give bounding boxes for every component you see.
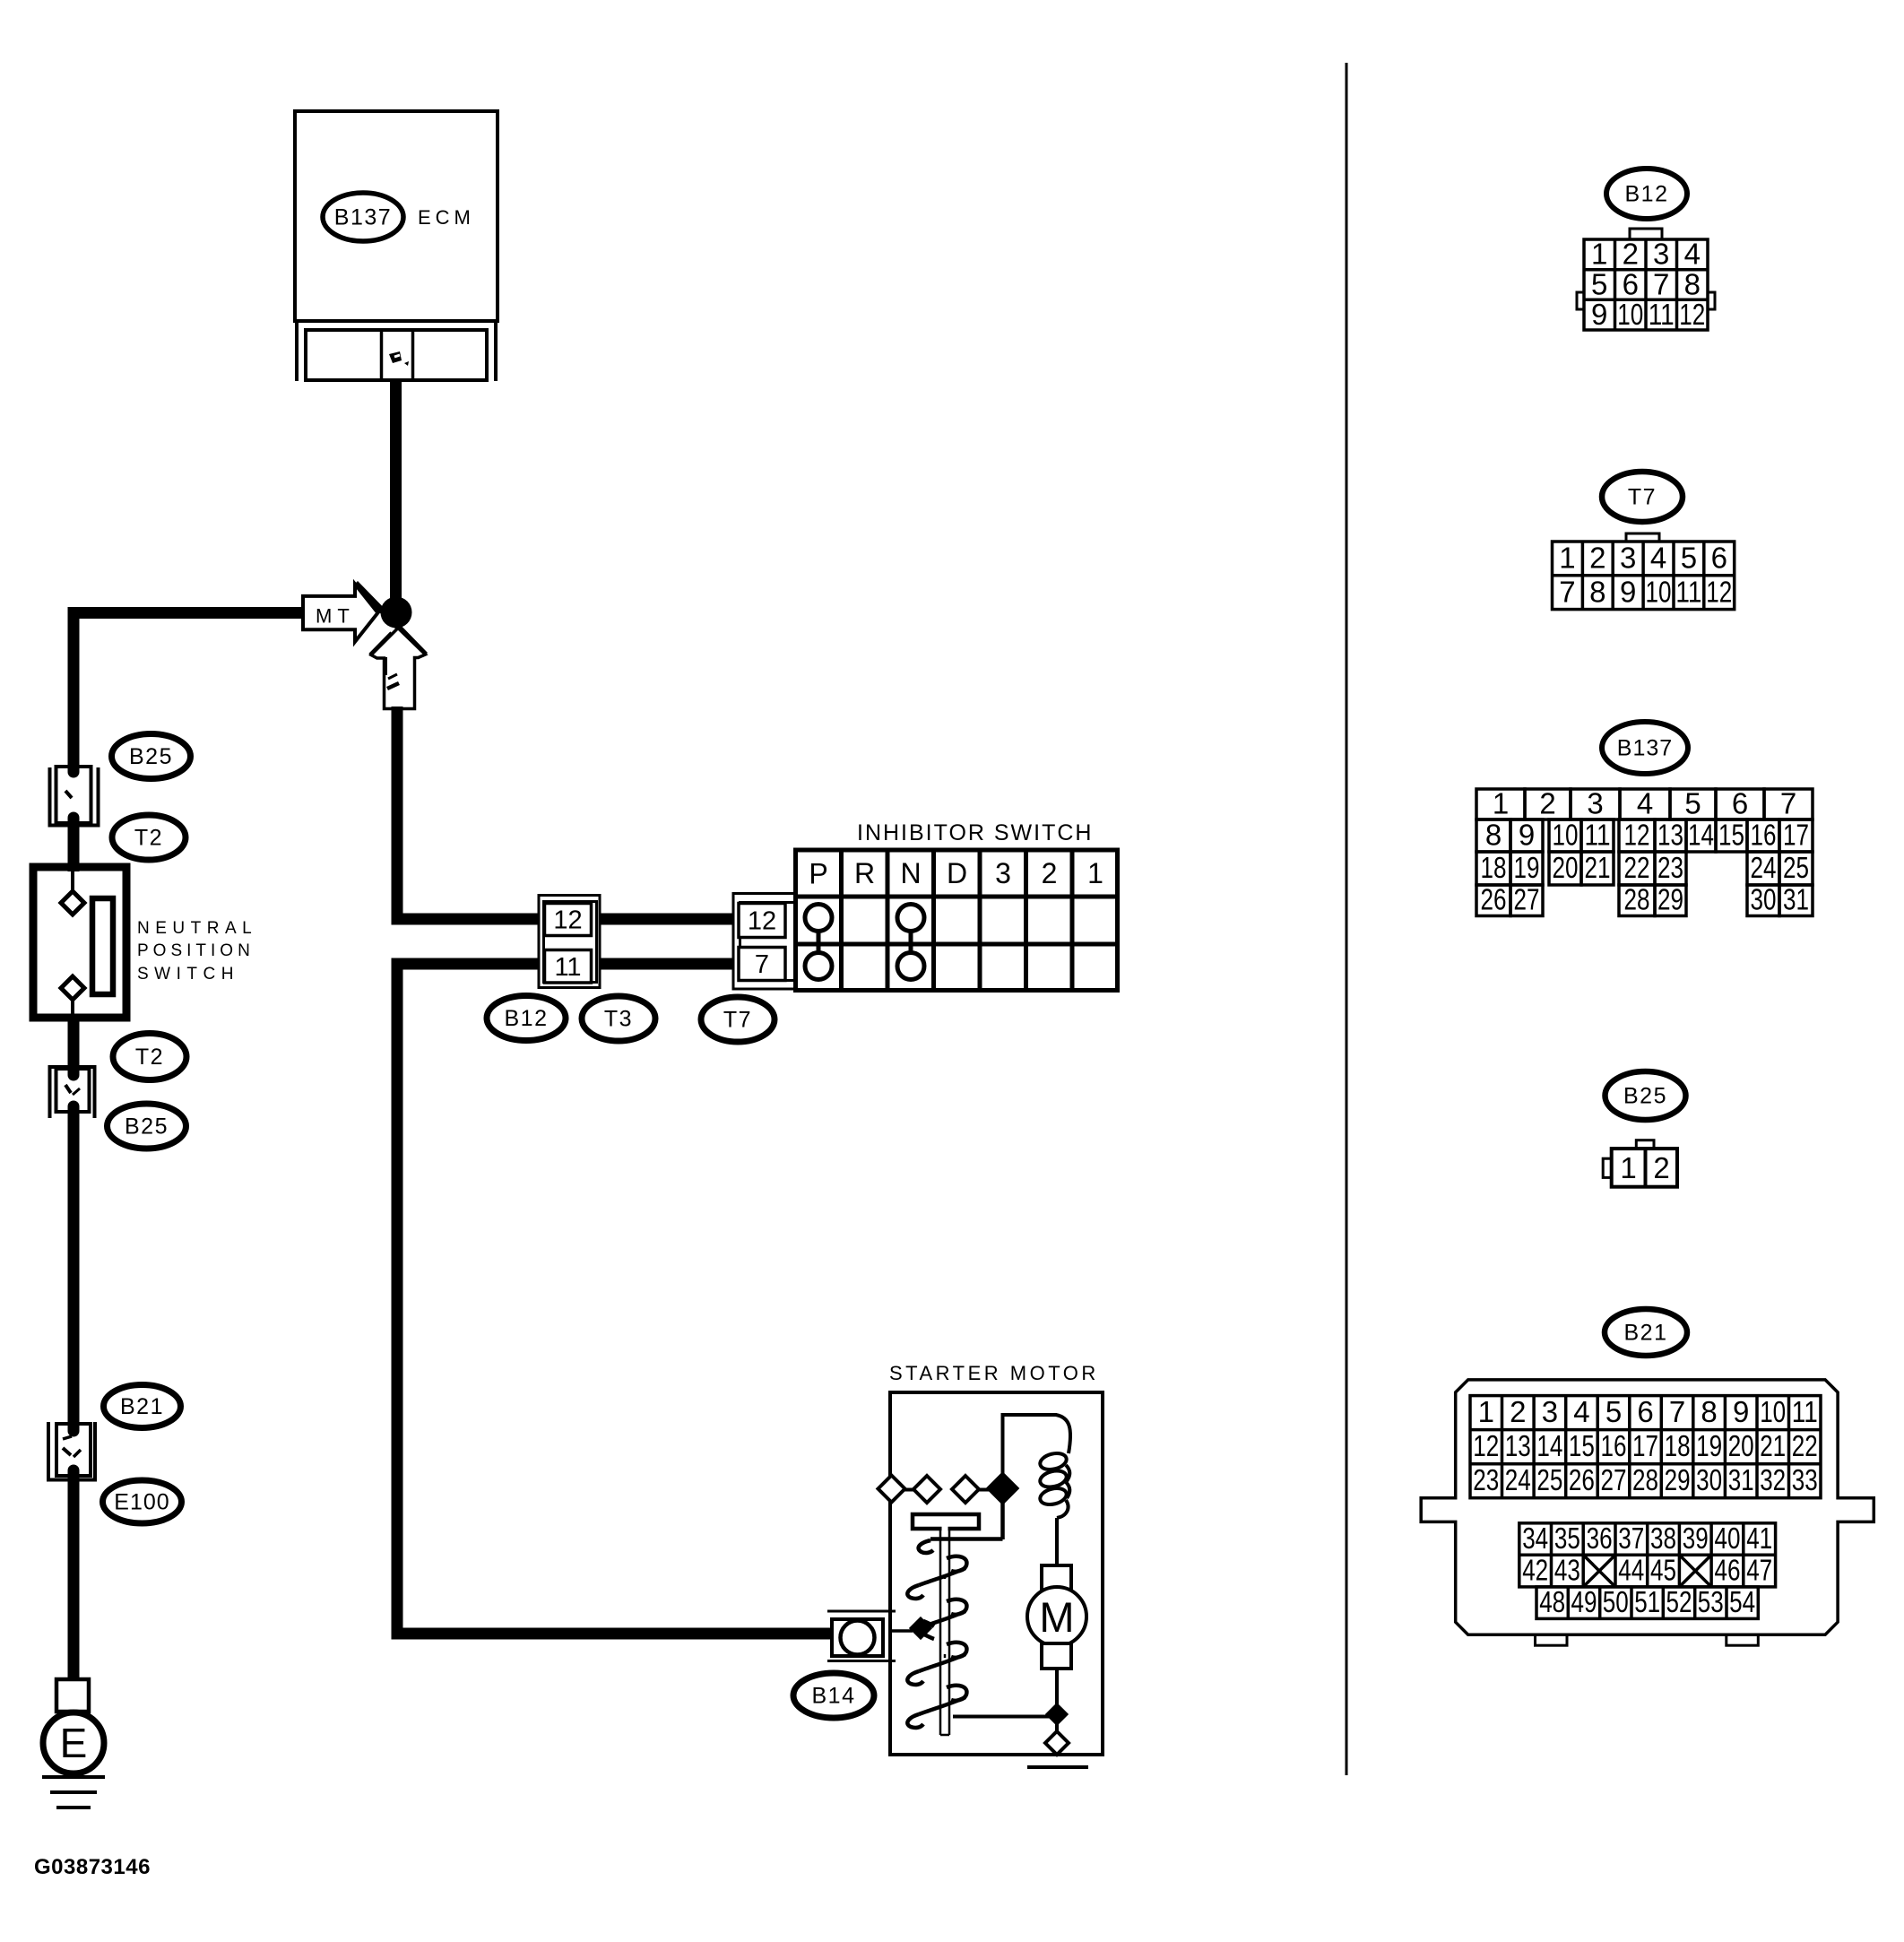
svg-text:11: 11 — [1585, 818, 1611, 851]
svg-text:2: 2 — [1042, 857, 1058, 889]
B14 junction diamond (filled) — [911, 1618, 930, 1638]
svg-text:29: 29 — [1665, 1463, 1691, 1496]
connector label oval B12 (detail view) — [1606, 169, 1687, 219]
svg-text:27: 27 — [1601, 1463, 1627, 1496]
inline connector T7 (pins 12/7) — [733, 894, 795, 990]
svg-text:28: 28 — [1632, 1463, 1658, 1496]
svg-text:R: R — [854, 857, 875, 889]
ECM pin number glyph — [389, 351, 409, 366]
svg-text:22: 22 — [1792, 1429, 1818, 1462]
inline connector B12/T3 (pins 12/11) — [539, 896, 600, 988]
svg-text:7: 7 — [755, 950, 769, 979]
svg-text:P: P — [809, 858, 827, 890]
inline connector B25/T2 (upper) — [48, 767, 100, 827]
plunger stem — [940, 1529, 949, 1735]
junction node (dot) — [381, 597, 412, 629]
svg-text:6: 6 — [1623, 267, 1639, 300]
connector label oval T7 (middle) — [701, 997, 775, 1042]
wire filled diamond down to plunger lead — [930, 1497, 1003, 1539]
svg-text:11: 11 — [1649, 298, 1675, 331]
pane divider line — [1346, 63, 1348, 1775]
svg-text:4: 4 — [1637, 786, 1653, 819]
svg-text:32: 32 — [1760, 1463, 1786, 1496]
connector label oval B25 (detail view) — [1605, 1071, 1686, 1120]
svg-text:19: 19 — [1696, 1429, 1722, 1462]
svg-text:2: 2 — [1653, 1151, 1669, 1184]
connector label oval B137 (in ECM) — [323, 193, 403, 241]
svg-text:38: 38 — [1650, 1522, 1676, 1555]
svg-text:G03873146: G03873146 — [34, 1855, 151, 1879]
svg-text:21: 21 — [1760, 1429, 1786, 1462]
wire E100 connector to ground terminal — [68, 1476, 80, 1681]
svg-text:1: 1 — [1591, 238, 1607, 271]
svg-text:T7: T7 — [1628, 485, 1657, 510]
svg-text:49: 49 — [1571, 1585, 1597, 1618]
svg-text:2: 2 — [1539, 786, 1555, 819]
svg-text:52: 52 — [1666, 1585, 1692, 1618]
starter motor box — [890, 1392, 1103, 1755]
svg-text:11: 11 — [1792, 1395, 1818, 1428]
svg-text:9: 9 — [1519, 818, 1535, 851]
plunger T-bar — [913, 1514, 979, 1529]
connector B21 pin grid middle — [1519, 1523, 1776, 1587]
svg-text:6: 6 — [1637, 1395, 1653, 1428]
svg-text:INHIBITOR SWITCH: INHIBITOR SWITCH — [857, 820, 1093, 845]
AT arrow (up) — [371, 629, 426, 709]
svg-text:E: E — [60, 1720, 88, 1766]
svg-text:B25: B25 — [125, 1114, 169, 1140]
svg-text:21: 21 — [1585, 851, 1611, 884]
svg-text:10: 10 — [1617, 298, 1643, 331]
svg-text:26: 26 — [1481, 883, 1507, 916]
svg-text:12: 12 — [553, 906, 582, 935]
inhibitor table header letters — [809, 857, 1103, 890]
svg-text:48: 48 — [1539, 1585, 1565, 1618]
svg-text:B137: B137 — [1617, 736, 1673, 761]
svg-text:10: 10 — [1553, 818, 1579, 851]
connector B21 housing outline — [1421, 1380, 1874, 1634]
motor brush top — [1042, 1565, 1071, 1591]
NEUTRAL POSITION SWITCH text — [137, 919, 257, 984]
svg-text:B137: B137 — [334, 205, 392, 230]
svg-text:6: 6 — [1711, 542, 1727, 575]
wire vertical down to starter motor — [392, 958, 403, 1640]
connector label oval B21 (detail view) — [1605, 1309, 1687, 1356]
bottom open diamond — [1045, 1731, 1069, 1755]
svg-text:2: 2 — [1623, 238, 1639, 271]
wire connector to NPS box — [68, 820, 80, 871]
wire upper horizontal to inhibitor switch pin 12 — [392, 914, 799, 925]
svg-text:T7: T7 — [723, 1008, 752, 1033]
svg-text:18: 18 — [1481, 851, 1507, 884]
svg-text:3: 3 — [1620, 542, 1636, 575]
svg-text:23: 23 — [1473, 1463, 1499, 1496]
svg-text:STARTER MOTOR: STARTER MOTOR — [889, 1362, 1099, 1384]
ECM connector strip — [306, 330, 487, 380]
wire up-arrow down to elbow — [392, 707, 403, 925]
motor brush bottom — [1042, 1643, 1071, 1669]
contact circles column P — [805, 905, 832, 980]
svg-text:40: 40 — [1715, 1522, 1741, 1555]
wire bottom horizontal to starter B14 — [392, 1628, 833, 1640]
connector B21 pin grid bottom — [1536, 1587, 1758, 1619]
svg-text:POSITION: POSITION — [137, 941, 255, 960]
svg-text:3: 3 — [1653, 238, 1669, 271]
svg-text:24: 24 — [1751, 851, 1777, 884]
svg-text:16: 16 — [1601, 1429, 1627, 1462]
svg-text:18: 18 — [1665, 1429, 1691, 1462]
svg-text:51: 51 — [1634, 1585, 1660, 1618]
ground symbol — [42, 1777, 105, 1808]
svg-text:12: 12 — [1679, 298, 1705, 331]
connector T7 pin grid — [1553, 533, 1735, 610]
svg-text:3: 3 — [1542, 1395, 1558, 1428]
svg-text:5: 5 — [1605, 1395, 1622, 1428]
connector B12 pin grid — [1577, 229, 1715, 330]
svg-text:B21: B21 — [1624, 1321, 1668, 1346]
wire lower connector to B21/E100 connector — [68, 1112, 80, 1427]
svg-text:8: 8 — [1589, 576, 1605, 609]
svg-text:15: 15 — [1569, 1429, 1595, 1462]
inhibitor switch table — [793, 848, 1120, 993]
NPS internal wire top — [71, 871, 74, 893]
svg-text:2: 2 — [1510, 1395, 1526, 1428]
svg-text:3: 3 — [1587, 786, 1603, 819]
svg-text:N: N — [900, 857, 921, 889]
ground terminal box — [56, 1679, 89, 1712]
svg-text:5: 5 — [1681, 542, 1697, 575]
svg-text:12: 12 — [748, 907, 776, 936]
starter ground stroke — [1027, 1765, 1088, 1769]
svg-text:7: 7 — [1653, 267, 1669, 300]
inline connector B14 — [827, 1611, 896, 1661]
svg-text:14: 14 — [1688, 818, 1714, 851]
svg-text:MT: MT — [316, 605, 355, 628]
svg-text:ECM: ECM — [418, 206, 475, 229]
svg-text:M: M — [1039, 1593, 1074, 1641]
svg-text:5: 5 — [1684, 786, 1701, 819]
svg-text:23: 23 — [1657, 851, 1683, 884]
svg-text:46: 46 — [1715, 1554, 1741, 1587]
svg-text:45: 45 — [1650, 1554, 1676, 1587]
svg-text:26: 26 — [1569, 1463, 1595, 1496]
svg-text:12: 12 — [1624, 818, 1650, 851]
svg-text:14: 14 — [1536, 1429, 1562, 1462]
svg-text:T2: T2 — [135, 1045, 164, 1070]
starter internal wire top — [1001, 1413, 1058, 1478]
bottom junction diamond (filled) — [1047, 1704, 1067, 1724]
svg-text:17: 17 — [1632, 1429, 1658, 1462]
svg-text:43: 43 — [1554, 1554, 1580, 1587]
NPS slider rectangle — [92, 898, 113, 994]
starter contact diamonds row — [878, 1474, 1017, 1503]
svg-text:53: 53 — [1698, 1585, 1724, 1618]
wire left vertical down to B25 connector — [68, 607, 80, 772]
svg-text:B14: B14 — [812, 1684, 856, 1709]
svg-text:47: 47 — [1746, 1554, 1772, 1587]
svg-text:B25: B25 — [1623, 1084, 1667, 1109]
svg-text:25: 25 — [1783, 851, 1809, 884]
svg-text:E100: E100 — [114, 1490, 169, 1515]
connector label oval T7 (detail view) — [1602, 472, 1683, 522]
connector label oval B25 (upper left) — [112, 734, 191, 779]
inline connector T2/B25 (lower) — [48, 1065, 97, 1118]
svg-text:B21: B21 — [120, 1394, 164, 1419]
svg-text:54: 54 — [1729, 1585, 1755, 1618]
wire junction-left horizontal to MT — [74, 607, 303, 619]
svg-text:B12: B12 — [1625, 182, 1669, 207]
connector label oval E100 — [103, 1480, 182, 1523]
svg-text:24: 24 — [1505, 1463, 1531, 1496]
svg-text:8: 8 — [1684, 267, 1701, 300]
svg-text:B12: B12 — [505, 1006, 549, 1031]
wire lower horizontal from inhibitor switch pin 7 — [392, 958, 799, 970]
svg-text:1: 1 — [1620, 1151, 1636, 1184]
connector B25 pin grid — [1603, 1140, 1677, 1187]
svg-text:7: 7 — [1780, 786, 1796, 819]
motor M — [1027, 1587, 1086, 1646]
connector label oval B21 (left) — [104, 1385, 181, 1428]
svg-text:13: 13 — [1505, 1429, 1531, 1462]
neutral position switch box — [33, 867, 126, 1018]
connector B137 pin grid — [1476, 789, 1813, 916]
svg-text:19: 19 — [1514, 851, 1540, 884]
svg-text:4: 4 — [1650, 542, 1666, 575]
svg-text:33: 33 — [1792, 1463, 1818, 1496]
svg-text:9: 9 — [1591, 298, 1607, 331]
connector B21 pin grid top — [1470, 1396, 1821, 1498]
svg-text:16: 16 — [1751, 818, 1777, 851]
svg-text:30: 30 — [1696, 1463, 1722, 1496]
svg-text:9: 9 — [1733, 1395, 1749, 1428]
svg-text:6: 6 — [1732, 786, 1748, 819]
svg-text:50: 50 — [1603, 1585, 1629, 1618]
wire motor to bottom junction — [1055, 1669, 1059, 1733]
svg-text:4: 4 — [1573, 1395, 1589, 1428]
solenoid coil — [1038, 1415, 1070, 1565]
svg-text:8: 8 — [1485, 818, 1502, 851]
connector label oval B25 (lower) — [108, 1104, 186, 1149]
NPS contact diamond 1 — [61, 891, 84, 915]
connector B21 bottom tabs — [1536, 1634, 1568, 1645]
connector label oval T2 (lower) — [113, 1034, 186, 1080]
wire NPS box to lower connector — [68, 1014, 80, 1072]
svg-text:39: 39 — [1683, 1522, 1709, 1555]
connector label oval B12 (middle) — [487, 996, 566, 1041]
svg-text:22: 22 — [1624, 851, 1650, 884]
svg-text:35: 35 — [1554, 1522, 1580, 1555]
svg-text:42: 42 — [1522, 1554, 1548, 1587]
svg-text:4: 4 — [1684, 238, 1701, 271]
wire ECM to junction — [390, 380, 402, 601]
svg-text:1: 1 — [1493, 786, 1509, 819]
svg-text:28: 28 — [1624, 883, 1650, 916]
MT arrow label — [303, 585, 378, 642]
svg-text:36: 36 — [1587, 1522, 1613, 1555]
svg-text:31: 31 — [1783, 883, 1809, 916]
connector label oval T2 (upper) — [112, 815, 186, 860]
wire crossing diagonal 1 — [356, 584, 426, 655]
svg-text:29: 29 — [1657, 883, 1683, 916]
svg-text:11: 11 — [554, 953, 581, 982]
svg-text:12: 12 — [1706, 576, 1732, 609]
connector label oval B14 — [793, 1673, 874, 1718]
svg-text:31: 31 — [1728, 1463, 1754, 1496]
connector label oval B137 (detail view) — [1602, 722, 1688, 774]
svg-text:1: 1 — [1087, 857, 1103, 889]
svg-text:10: 10 — [1646, 576, 1672, 609]
contact circles column N — [897, 905, 924, 980]
svg-text:2: 2 — [1589, 542, 1605, 575]
svg-text:27: 27 — [1514, 883, 1540, 916]
svg-text:12: 12 — [1473, 1429, 1499, 1462]
svg-text:1: 1 — [1478, 1395, 1494, 1428]
svg-text:44: 44 — [1618, 1554, 1644, 1587]
svg-text:NEUTRAL: NEUTRAL — [137, 919, 257, 938]
svg-text:9: 9 — [1620, 576, 1636, 609]
svg-text:34: 34 — [1522, 1522, 1548, 1555]
svg-text:D: D — [947, 857, 967, 889]
svg-text:41: 41 — [1746, 1522, 1772, 1555]
svg-text:7: 7 — [1669, 1395, 1685, 1428]
inline connector B21/E100 — [47, 1422, 97, 1481]
ECM box B137 — [295, 111, 498, 381]
svg-text:37: 37 — [1618, 1522, 1644, 1555]
svg-text:7: 7 — [1559, 576, 1575, 609]
svg-text:17: 17 — [1783, 818, 1809, 851]
svg-text:T2: T2 — [134, 826, 163, 851]
svg-text:11: 11 — [1675, 576, 1701, 609]
svg-text:3: 3 — [995, 857, 1011, 889]
svg-text:15: 15 — [1718, 818, 1744, 851]
svg-text:30: 30 — [1751, 883, 1777, 916]
svg-text:SWITCH: SWITCH — [137, 965, 239, 984]
svg-text:5: 5 — [1591, 267, 1607, 300]
connector label oval T3 — [582, 996, 655, 1041]
svg-text:B25: B25 — [129, 744, 173, 769]
svg-text:20: 20 — [1728, 1429, 1754, 1462]
B14 lead into box — [888, 1629, 913, 1633]
ground circle E — [43, 1712, 104, 1773]
NPS internal wire bottom — [71, 999, 74, 1016]
wire plunger bottom to junction — [953, 1715, 1057, 1719]
svg-text:20: 20 — [1553, 851, 1579, 884]
svg-text:T3: T3 — [604, 1007, 633, 1032]
NPS contact diamond 2 — [61, 976, 84, 1000]
svg-text:13: 13 — [1657, 818, 1683, 851]
svg-text:25: 25 — [1536, 1463, 1562, 1496]
svg-text:1: 1 — [1559, 542, 1575, 575]
svg-text:10: 10 — [1760, 1395, 1786, 1428]
svg-text:8: 8 — [1701, 1395, 1717, 1428]
plunger return spring helix — [907, 1540, 966, 1728]
wire crossing diagonal 2 — [371, 634, 393, 656]
